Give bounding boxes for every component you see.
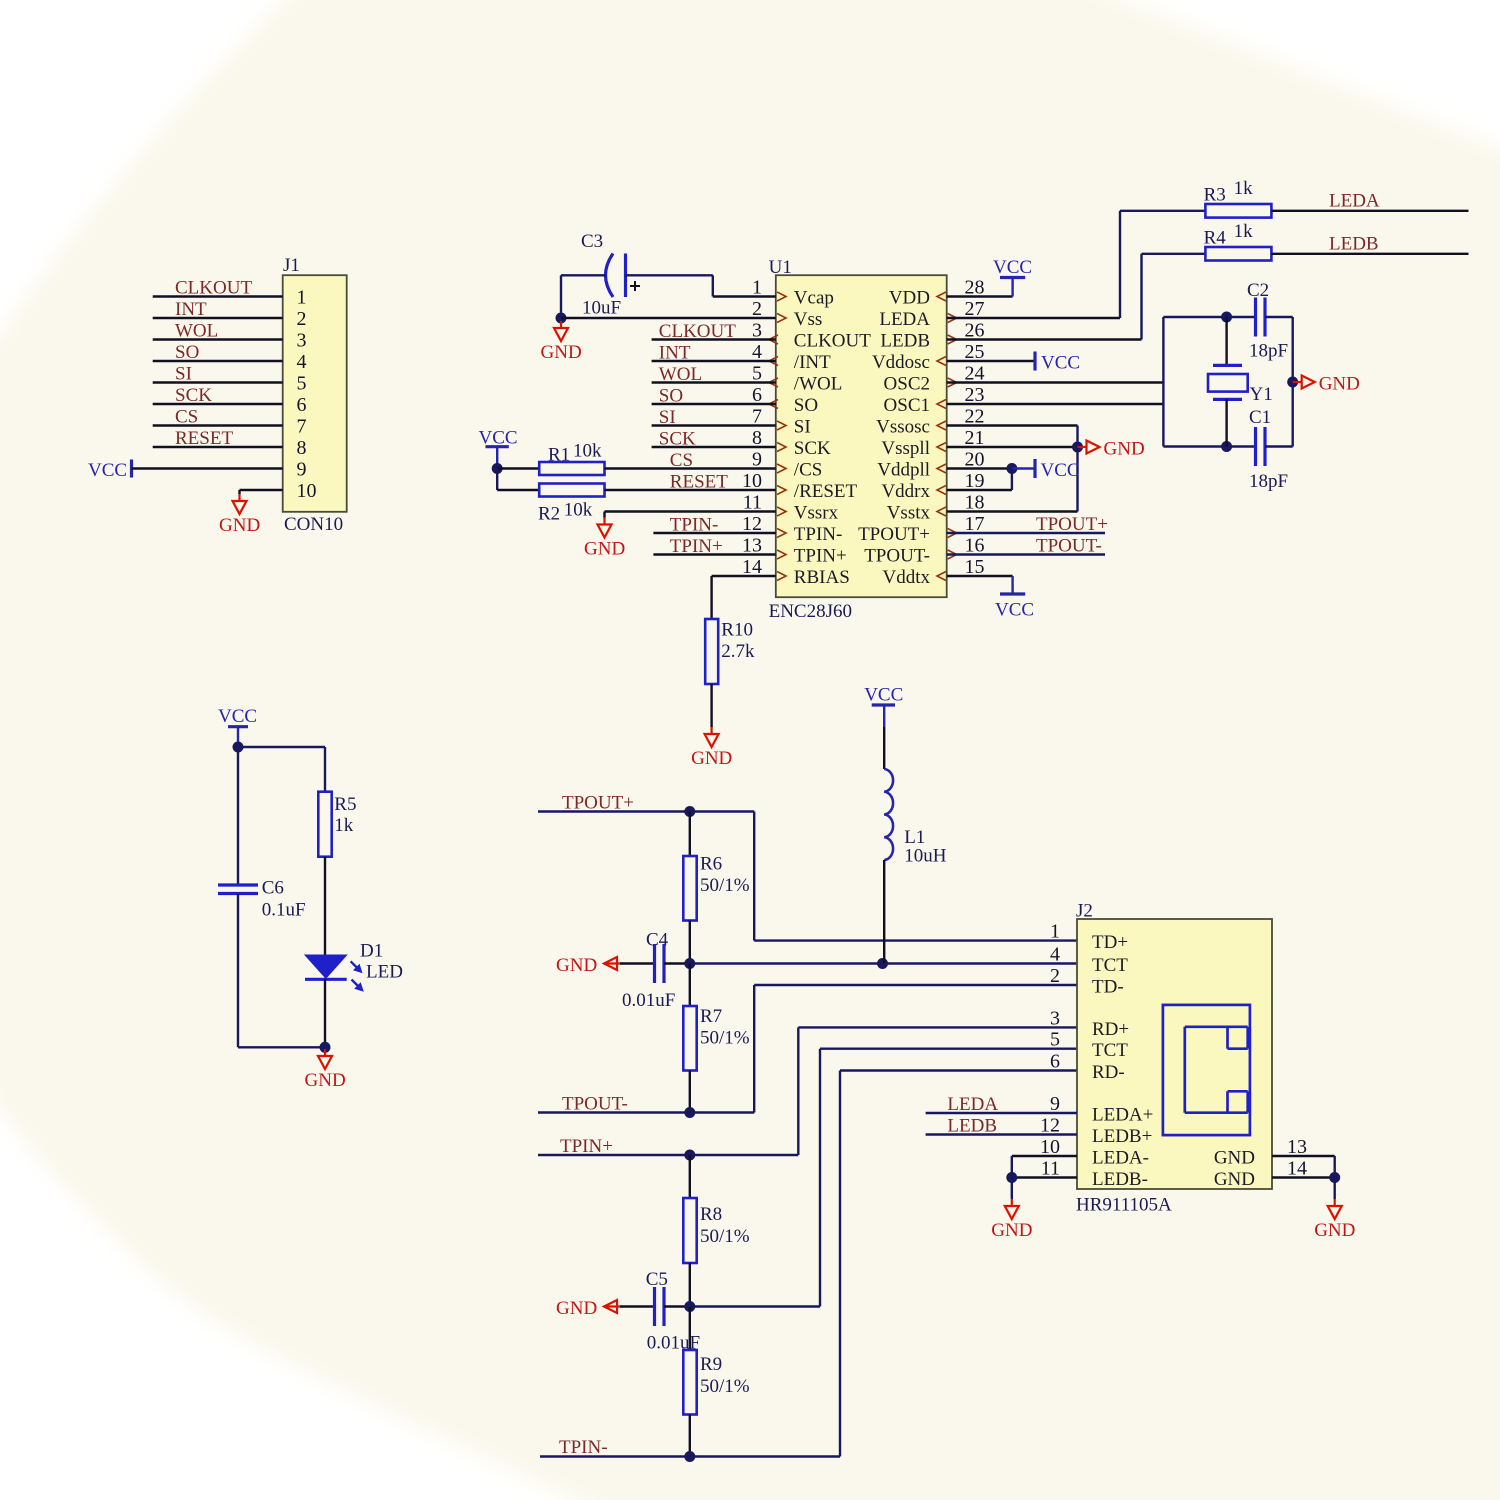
svg-text:LEDB: LEDB: [1329, 234, 1379, 255]
svg-text:LEDB: LEDB: [880, 331, 930, 352]
svg-text:26: 26: [965, 320, 985, 342]
svg-text:CLKOUT: CLKOUT: [175, 278, 252, 299]
svg-text:Vsspll: Vsspll: [881, 438, 930, 459]
svg-text:1: 1: [1050, 921, 1060, 943]
svg-text:6: 6: [297, 394, 307, 416]
svg-text:ENC28J60: ENC28J60: [769, 601, 852, 622]
svg-text:12: 12: [1040, 1115, 1060, 1137]
svg-text:10uH: 10uH: [904, 846, 947, 867]
svg-text:LEDA: LEDA: [947, 1094, 998, 1115]
svg-text:OSC1: OSC1: [884, 395, 930, 416]
svg-text:22: 22: [965, 406, 985, 428]
svg-text:6: 6: [752, 384, 762, 406]
svg-text:Vddosc: Vddosc: [872, 352, 930, 373]
svg-text:R3: R3: [1204, 185, 1226, 206]
svg-text:TD+: TD+: [1092, 932, 1128, 953]
svg-text:VCC: VCC: [218, 706, 257, 727]
svg-text:14: 14: [1287, 1158, 1307, 1180]
svg-text:GND: GND: [1214, 1169, 1255, 1190]
svg-text:LEDA-: LEDA-: [1092, 1148, 1149, 1169]
svg-text:LEDA+: LEDA+: [1092, 1105, 1153, 1126]
svg-text:18pF: 18pF: [1249, 341, 1288, 362]
svg-text:LEDB+: LEDB+: [1092, 1126, 1152, 1147]
svg-text:Vssrx: Vssrx: [794, 503, 839, 524]
svg-text:16: 16: [965, 535, 985, 557]
svg-text:18pF: 18pF: [1249, 471, 1288, 492]
svg-text:10uF: 10uF: [582, 298, 621, 319]
svg-text:Vss: Vss: [794, 309, 823, 330]
svg-text:18: 18: [965, 492, 985, 514]
svg-text:Vddpll: Vddpll: [877, 460, 930, 481]
svg-text:CLKOUT: CLKOUT: [794, 331, 871, 352]
svg-text:OSC2: OSC2: [884, 374, 930, 395]
svg-text:TPOUT+: TPOUT+: [562, 793, 634, 814]
svg-text:15: 15: [965, 556, 985, 578]
svg-text:TPIN+: TPIN+: [670, 536, 723, 557]
svg-text:GND: GND: [541, 342, 582, 363]
svg-text:7: 7: [297, 416, 307, 438]
svg-text:27: 27: [965, 298, 985, 320]
svg-text:C1: C1: [1249, 407, 1271, 428]
svg-text:2.7k: 2.7k: [721, 641, 755, 662]
svg-text:TPIN+: TPIN+: [560, 1136, 613, 1157]
svg-text:8: 8: [297, 437, 307, 459]
svg-text:3: 3: [1050, 1007, 1060, 1029]
svg-text:GND: GND: [219, 515, 260, 536]
svg-text:Vcap: Vcap: [794, 288, 834, 309]
svg-text:SI: SI: [794, 417, 811, 438]
svg-text:20: 20: [965, 449, 985, 471]
svg-text:9: 9: [297, 459, 307, 481]
svg-text:C3: C3: [581, 231, 603, 252]
svg-text:Vddtx: Vddtx: [883, 567, 931, 588]
svg-text:Vddrx: Vddrx: [881, 481, 930, 502]
svg-text:SI: SI: [175, 364, 192, 385]
svg-text:R10: R10: [721, 620, 753, 641]
svg-text:TPOUT-: TPOUT-: [1036, 536, 1102, 557]
svg-text:GND: GND: [991, 1220, 1032, 1241]
svg-text:R7: R7: [700, 1006, 722, 1027]
svg-text:CS: CS: [175, 407, 198, 428]
svg-text:0.1uF: 0.1uF: [262, 900, 306, 921]
svg-text:14: 14: [742, 556, 762, 578]
svg-text:GND: GND: [1319, 374, 1360, 395]
svg-text:VCC: VCC: [1041, 353, 1080, 374]
svg-text:1k: 1k: [1234, 221, 1254, 242]
svg-text:LED: LED: [366, 962, 403, 983]
svg-text:GND: GND: [556, 1298, 597, 1319]
svg-text:5: 5: [297, 373, 307, 395]
svg-text:Vsstx: Vsstx: [887, 503, 931, 524]
svg-text:VDD: VDD: [889, 288, 930, 309]
svg-text:U1: U1: [769, 257, 792, 278]
svg-text:13: 13: [742, 535, 762, 557]
svg-text:LEDB: LEDB: [947, 1116, 997, 1137]
svg-text:50/1%: 50/1%: [700, 1226, 750, 1247]
svg-text:VCC: VCC: [1041, 460, 1080, 481]
svg-text:TCT: TCT: [1092, 955, 1128, 976]
svg-text:1k: 1k: [1234, 178, 1254, 199]
svg-text:/CS: /CS: [794, 460, 823, 481]
svg-text:WOL: WOL: [175, 321, 218, 342]
svg-text:CON10: CON10: [284, 514, 343, 535]
svg-text:VCC: VCC: [993, 257, 1032, 278]
svg-text:1: 1: [752, 277, 762, 299]
svg-text:50/1%: 50/1%: [700, 875, 750, 896]
svg-text:1k: 1k: [334, 815, 354, 836]
svg-text:4: 4: [752, 341, 762, 363]
svg-text:R1: R1: [548, 445, 570, 466]
svg-text:13: 13: [1287, 1136, 1307, 1158]
svg-text:INT: INT: [659, 343, 691, 364]
svg-text:8: 8: [752, 427, 762, 449]
svg-text:TD-: TD-: [1092, 977, 1124, 998]
svg-text:GND: GND: [584, 539, 625, 560]
svg-text:23: 23: [965, 384, 985, 406]
svg-text:LEDA: LEDA: [1329, 191, 1380, 212]
svg-text:J1: J1: [283, 255, 300, 276]
svg-text:SCK: SCK: [794, 438, 831, 459]
svg-text:1: 1: [297, 287, 307, 309]
svg-text:10: 10: [297, 480, 317, 502]
svg-text:INT: INT: [175, 299, 207, 320]
svg-text:/RESET: /RESET: [794, 481, 858, 502]
svg-text:VCC: VCC: [995, 600, 1034, 621]
svg-text:RBIAS: RBIAS: [794, 567, 850, 588]
svg-text:12: 12: [742, 513, 762, 535]
svg-text:SO: SO: [659, 386, 683, 407]
svg-text:R9: R9: [700, 1354, 722, 1375]
svg-text:TPIN-: TPIN-: [670, 515, 719, 536]
svg-text:VCC: VCC: [88, 460, 127, 481]
svg-text:RD+: RD+: [1092, 1019, 1129, 1040]
svg-text:2: 2: [1050, 965, 1060, 987]
svg-text:3: 3: [752, 320, 762, 342]
svg-text:SCK: SCK: [175, 385, 212, 406]
svg-text:21: 21: [965, 427, 985, 449]
svg-text:GND: GND: [556, 955, 597, 976]
svg-text:3: 3: [297, 330, 307, 352]
svg-text:RD-: RD-: [1092, 1062, 1125, 1083]
svg-text:2: 2: [752, 298, 762, 320]
svg-text:J2: J2: [1076, 901, 1093, 922]
svg-text:SO: SO: [175, 342, 199, 363]
svg-text:RESET: RESET: [175, 428, 233, 449]
svg-text:HR911105A: HR911105A: [1076, 1195, 1172, 1216]
svg-text:GND: GND: [1314, 1220, 1355, 1241]
svg-text:WOL: WOL: [659, 364, 702, 385]
svg-text:GND: GND: [1104, 439, 1145, 460]
svg-text:TPOUT-: TPOUT-: [562, 1094, 628, 1115]
svg-text:GND: GND: [691, 748, 732, 769]
svg-text:25: 25: [965, 341, 985, 363]
svg-text:TPOUT+: TPOUT+: [1036, 514, 1108, 535]
svg-text:R4: R4: [1204, 228, 1227, 249]
svg-text:5: 5: [752, 363, 762, 385]
svg-text:SO: SO: [794, 395, 818, 416]
svg-text:R6: R6: [700, 854, 722, 875]
svg-text:6: 6: [1050, 1051, 1060, 1073]
svg-text:LEDA: LEDA: [879, 309, 930, 330]
svg-text:4: 4: [1050, 944, 1060, 966]
svg-text:24: 24: [965, 363, 985, 385]
svg-text:10k: 10k: [573, 441, 602, 462]
svg-text:TPOUT+: TPOUT+: [858, 524, 930, 545]
svg-text:50/1%: 50/1%: [700, 1028, 750, 1049]
svg-text:10k: 10k: [564, 500, 593, 521]
svg-text:LEDB-: LEDB-: [1092, 1169, 1148, 1190]
svg-text:17: 17: [965, 513, 985, 535]
svg-text:TPOUT-: TPOUT-: [864, 546, 930, 567]
svg-text:TPIN+: TPIN+: [794, 546, 847, 567]
svg-text:GND: GND: [305, 1070, 346, 1091]
svg-text:TPIN-: TPIN-: [794, 524, 843, 545]
svg-text:R5: R5: [334, 794, 356, 815]
svg-text:TCT: TCT: [1092, 1040, 1128, 1061]
svg-text:/WOL: /WOL: [794, 374, 843, 395]
svg-text:4: 4: [297, 351, 307, 373]
svg-text:CLKOUT: CLKOUT: [659, 321, 736, 342]
svg-text:9: 9: [752, 449, 762, 471]
svg-text:19: 19: [965, 470, 985, 492]
svg-text:7: 7: [752, 406, 762, 428]
svg-text:R2: R2: [538, 504, 560, 525]
svg-text:28: 28: [965, 277, 985, 299]
svg-text:10: 10: [742, 470, 762, 492]
svg-text:Y1: Y1: [1250, 384, 1273, 405]
svg-text:2: 2: [297, 308, 307, 330]
svg-text:/INT: /INT: [794, 352, 831, 373]
svg-text:9: 9: [1050, 1093, 1060, 1115]
svg-text:GND: GND: [1214, 1148, 1255, 1169]
svg-text:SCK: SCK: [659, 429, 696, 450]
svg-text:C6: C6: [262, 878, 284, 899]
svg-text:10: 10: [1040, 1136, 1060, 1158]
svg-text:11: 11: [1041, 1158, 1060, 1180]
svg-text:D1: D1: [360, 941, 383, 962]
svg-text:R8: R8: [700, 1204, 722, 1225]
svg-text:SI: SI: [659, 407, 676, 428]
svg-text:50/1%: 50/1%: [700, 1376, 750, 1397]
svg-text:VCC: VCC: [864, 685, 903, 706]
svg-text:0.01uF: 0.01uF: [622, 990, 675, 1011]
svg-text:5: 5: [1050, 1029, 1060, 1051]
svg-text:C5: C5: [646, 1269, 668, 1290]
svg-text:11: 11: [743, 492, 762, 514]
svg-text:TPIN-: TPIN-: [559, 1437, 608, 1458]
svg-text:C2: C2: [1247, 280, 1269, 301]
svg-text:Vssosc: Vssosc: [876, 417, 930, 438]
